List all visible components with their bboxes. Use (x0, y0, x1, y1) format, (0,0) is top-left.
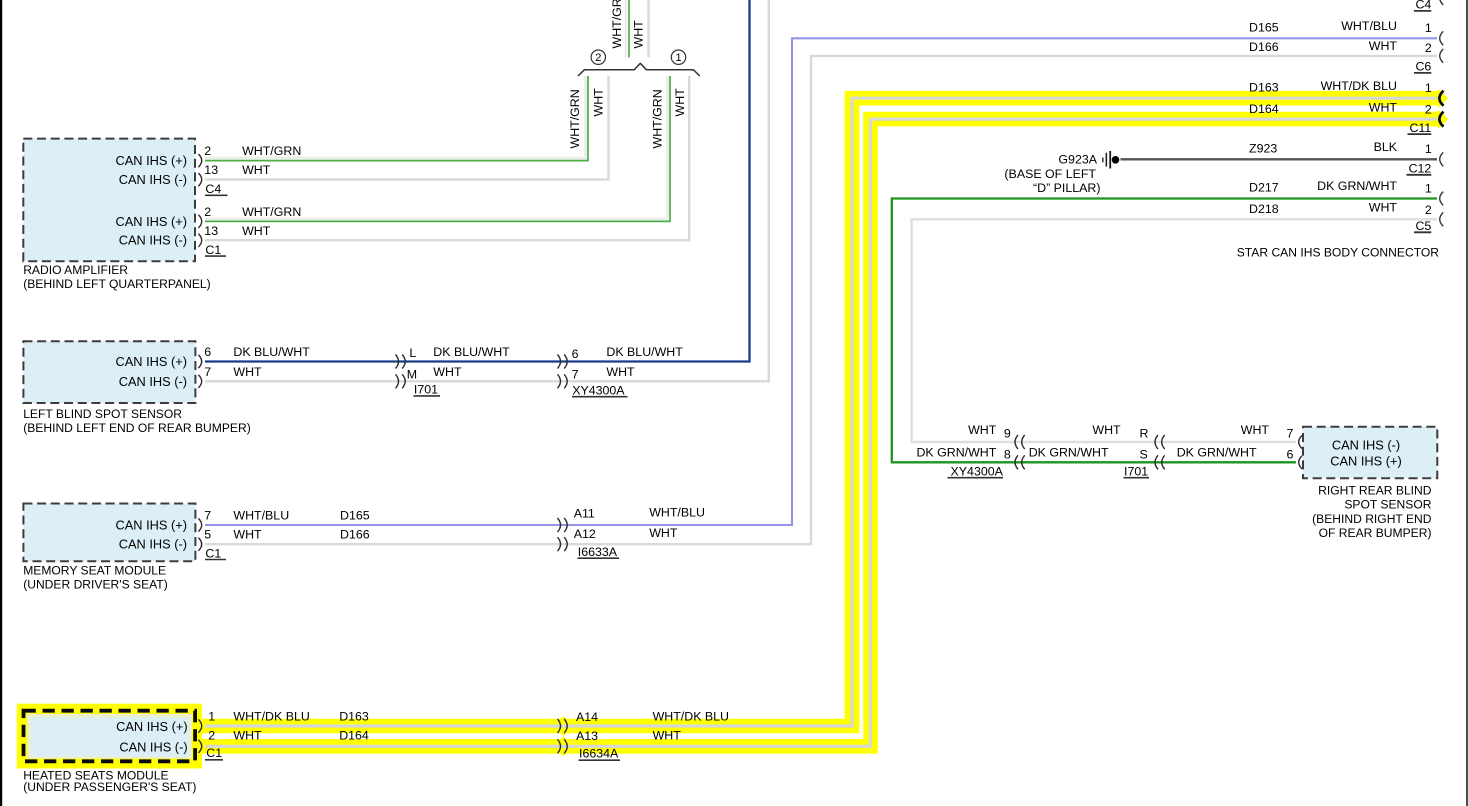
wire BLK Z923 (1121, 158, 1438, 160)
row D163 (1249, 79, 1432, 95)
highlight diamonds at connector I6634A (554, 716, 574, 736)
svg-text:DK GRN/WHT: DK GRN/WHT (1177, 446, 1257, 460)
pin arc right sensor 7 (1299, 435, 1302, 448)
svg-text:C1: C1 (206, 746, 222, 760)
wire WHT D218 (912, 219, 1437, 442)
svg-text:WHT/BLU: WHT/BLU (1341, 19, 1397, 33)
svg-text:C4: C4 (205, 182, 221, 196)
LBSS wire labels row1 (204, 345, 683, 361)
svg-text:WHT: WHT (632, 20, 646, 49)
row D165 (1249, 19, 1432, 35)
svg-text:WHT: WHT (606, 365, 635, 379)
svg-text:WHT/GRN: WHT/GRN (568, 89, 582, 148)
connector arc C6 pin1 (1440, 31, 1444, 45)
svg-text:RIGHT REAR BLIND: RIGHT REAR BLIND (1318, 484, 1432, 498)
svg-text:2: 2 (208, 729, 215, 743)
svg-text:7: 7 (204, 509, 211, 523)
svg-text:8: 8 (1004, 448, 1011, 462)
frame left edge (0, 0, 2, 806)
module box: HEATED SEATS MODULE (highlighted) (27, 714, 192, 759)
svg-text:CAN IHS (-): CAN IHS (-) (119, 537, 187, 552)
heated wire labels (205, 710, 729, 761)
svg-text:A14: A14 (576, 710, 598, 724)
pin arc heated 2 (198, 740, 201, 753)
svg-text:WHT/DK BLU: WHT/DK BLU (233, 710, 309, 724)
svg-text:CAN IHS (+): CAN IHS (+) (1330, 454, 1401, 469)
svg-text:OF REAR BUMPER): OF REAR BUMPER) (1319, 526, 1432, 540)
connector arcs I701 S (1155, 455, 1158, 469)
module box: RADIO AMPLIFIER (23, 139, 195, 262)
svg-text:I701: I701 (1124, 464, 1148, 478)
svg-text:CAN IHS (+): CAN IHS (+) (116, 214, 187, 229)
svg-text:M: M (407, 368, 417, 382)
connector arc C6 pin2 (1440, 49, 1444, 63)
svg-text:RADIO AMPLIFIER: RADIO AMPLIFIER (23, 263, 128, 277)
connector arc C4 pin2 (1440, 0, 1444, 5)
svg-text:13: 13 (204, 224, 218, 238)
module box: LEFT BLIND SPOT SENSOR (23, 341, 195, 403)
svg-text:WHT/DK BLU: WHT/DK BLU (653, 710, 729, 724)
svg-text:A11: A11 (574, 506, 595, 520)
svg-text:C4: C4 (1415, 0, 1431, 12)
svg-text:7: 7 (1287, 426, 1294, 440)
svg-text:LEFT BLIND SPOT SENSOR: LEFT BLIND SPOT SENSOR (23, 407, 182, 421)
svg-text:A13: A13 (576, 729, 598, 743)
svg-text:D164: D164 (1249, 102, 1279, 116)
svg-text:(UNDER DRIVER'S SEAT): (UNDER DRIVER'S SEAT) (23, 577, 168, 591)
svg-text:WHT: WHT (653, 728, 682, 742)
module RIGHT REAR BLIND SPOT SENSOR labels (1312, 437, 1432, 540)
ground G923A (1102, 151, 1119, 169)
svg-text:I701: I701 (414, 383, 438, 397)
module box: MEMORY SEAT MODULE (23, 504, 195, 562)
svg-text:WHT: WHT (233, 729, 262, 743)
pin arc heated 1 (198, 719, 201, 732)
svg-text:1: 1 (1425, 142, 1432, 156)
svg-text:D166: D166 (1249, 40, 1279, 54)
svg-text:XY4300A: XY4300A (951, 464, 1004, 478)
pin arc radio C1-13 (198, 234, 201, 247)
wire WHT memory seat D166 (205, 56, 1437, 544)
pin arc memory 5 (198, 538, 201, 551)
svg-text:WHT: WHT (1369, 39, 1398, 53)
wire WHT above brace (647, 0, 649, 58)
svg-text:I6633A: I6633A (578, 545, 618, 559)
svg-text:WHT: WHT (1369, 101, 1398, 115)
svg-text:2: 2 (595, 52, 601, 64)
svg-text:2: 2 (1425, 41, 1432, 55)
svg-text:L: L (409, 346, 416, 360)
wire WHT/GRN radio C1 pin2 (white companion) (205, 76, 668, 219)
svg-text:BLK: BLK (1374, 140, 1398, 154)
pin arc radio C4-13 (198, 173, 201, 186)
wire WHT/GRN radio C4 pin2 (205, 76, 588, 161)
svg-text:WHT/GRN: WHT/GRN (610, 0, 624, 49)
module LEFT BLIND SPOT SENSOR labels (23, 354, 251, 435)
pin arc right sensor 6 (1299, 456, 1302, 469)
bottom run row WHT (968, 423, 1293, 440)
svg-text:G923A: G923A (1058, 153, 1097, 167)
svg-text:DK GRN/WHT: DK GRN/WHT (916, 446, 996, 460)
module MEMORY SEAT MODULE labels (23, 518, 187, 592)
svg-text:7: 7 (572, 368, 579, 382)
wire WHT/GRN above brace (white companion) (625, 0, 628, 58)
svg-text:D163: D163 (339, 710, 369, 724)
svg-text:DK GRN/WHT: DK GRN/WHT (1029, 446, 1109, 460)
svg-text:9: 9 (1004, 426, 1011, 440)
svg-text:WHT/BLU: WHT/BLU (649, 505, 705, 519)
bottom run row DK GRN/WHT (916, 446, 1293, 462)
svg-text:CAN IHS (+): CAN IHS (+) (116, 153, 187, 168)
svg-text:XY4300A: XY4300A (572, 383, 625, 397)
svg-text:WHT: WHT (592, 88, 606, 117)
LBSS wire labels row2 (204, 365, 635, 382)
svg-text:Z923: Z923 (1249, 141, 1277, 155)
svg-text:C1: C1 (205, 243, 221, 257)
svg-text:6: 6 (1287, 447, 1294, 461)
svg-text:D166: D166 (340, 528, 370, 542)
svg-text:2: 2 (204, 205, 211, 219)
svg-text:R: R (1140, 426, 1149, 440)
svg-text:WHT/GRN: WHT/GRN (242, 205, 301, 219)
svg-text:WHT: WHT (242, 224, 271, 238)
pin arc memory 7 (198, 518, 201, 531)
svg-text:CAN IHS (-): CAN IHS (-) (1332, 437, 1400, 452)
svg-text:1: 1 (208, 710, 215, 724)
svg-text:1: 1 (1425, 81, 1432, 95)
svg-text:WHT: WHT (233, 528, 262, 542)
wire WHT/DK BLU heated seats D163 (205, 98, 1437, 726)
wire WHT heated seats D164 (205, 119, 1437, 746)
svg-text:DK GRN/WHT: DK GRN/WHT (1317, 179, 1397, 193)
connector arcs I6634A A14 (558, 719, 561, 733)
connector arcs I6633A A12 (558, 537, 561, 551)
svg-text:WHT: WHT (233, 365, 262, 379)
connector arcs XY4300A 6 (558, 355, 561, 369)
highlight: heated seats module band (17, 704, 202, 769)
svg-text:C12: C12 (1409, 162, 1432, 176)
svg-text:(UNDER PASSENGER'S SEAT): (UNDER PASSENGER'S SEAT) (23, 780, 196, 794)
svg-text:DK BLU/WHT: DK BLU/WHT (233, 345, 310, 359)
wire WHT radio C1 pin13 (205, 76, 689, 240)
svg-text:A12: A12 (574, 527, 596, 541)
circled 2 (591, 50, 605, 64)
svg-text:6: 6 (572, 347, 579, 361)
connector arcs I701 R (1155, 435, 1158, 449)
svg-text:D218: D218 (1249, 202, 1279, 216)
svg-text:“D” PILLAR): “D” PILLAR) (1033, 181, 1100, 195)
highlight: wire D163 path (183, 98, 1437, 726)
svg-text:WHT/GRN: WHT/GRN (651, 89, 665, 148)
svg-text:WHT: WHT (1241, 423, 1270, 437)
connector arc C12 pin1 (1440, 152, 1444, 166)
connector arcs I701 M (396, 374, 399, 388)
svg-text:WHT: WHT (242, 163, 271, 177)
row Z923 (1249, 140, 1432, 156)
svg-text:7: 7 (204, 365, 211, 379)
svg-text:D165: D165 (1249, 20, 1279, 34)
svg-text:(BASE OF LEFT: (BASE OF LEFT (1004, 167, 1096, 181)
svg-text:S: S (1140, 447, 1148, 461)
svg-text:C6: C6 (1415, 60, 1431, 74)
wire WHT/GRN radio C4 pin2 (white companion) (205, 76, 586, 158)
svg-text:5: 5 (204, 528, 211, 542)
connector arcs XY4300A 8 (1015, 455, 1018, 469)
ground G923A labels (1004, 153, 1100, 195)
svg-text:D165: D165 (340, 509, 370, 523)
svg-text:WHT: WHT (968, 423, 997, 437)
svg-text:2: 2 (204, 144, 211, 158)
svg-text:1: 1 (1425, 21, 1432, 35)
row D166 (1249, 39, 1432, 55)
pin arc radio C4-2 (198, 154, 201, 167)
svg-text:1: 1 (675, 52, 681, 64)
row D164 (1249, 101, 1432, 117)
row D218 (1249, 201, 1432, 217)
svg-text:WHT/GRN: WHT/GRN (242, 144, 301, 158)
connector arcs I701 L (396, 355, 399, 369)
svg-text:WHT: WHT (1369, 201, 1398, 215)
row D217 (1249, 179, 1432, 195)
circled 1 (671, 50, 685, 64)
svg-text:WHT/DK BLU: WHT/DK BLU (1321, 79, 1397, 93)
svg-text:CAN IHS (+): CAN IHS (+) (116, 354, 187, 369)
connector arcs XY4300A 9 (1015, 435, 1018, 449)
module RADIO AMPLIFIER labels (23, 153, 211, 291)
svg-text:CAN IHS (-): CAN IHS (-) (119, 172, 187, 187)
wire DK GRN/WHT D217 (892, 199, 1437, 463)
svg-text:1: 1 (1425, 182, 1432, 196)
memory wire labels (204, 505, 705, 560)
connector arcs XY4300A 7 (558, 374, 561, 388)
svg-text:CAN IHS (-): CAN IHS (-) (119, 233, 187, 248)
svg-text:2: 2 (1425, 103, 1432, 117)
radio wire labels (204, 144, 301, 257)
svg-text:(BEHIND RIGHT END: (BEHIND RIGHT END (1312, 512, 1432, 526)
svg-text:SPOT SENSOR: SPOT SENSOR (1344, 498, 1431, 512)
connector arcs I6634A A13 (558, 739, 561, 753)
svg-text:DK BLU/WHT: DK BLU/WHT (606, 345, 683, 359)
svg-text:D217: D217 (1249, 181, 1279, 195)
svg-text:6: 6 (204, 345, 211, 359)
pin arc LBSS 6 (198, 355, 201, 368)
svg-text:2: 2 (1425, 203, 1432, 217)
pin arc radio C1-2 (198, 215, 201, 228)
svg-text:DK BLU/WHT: DK BLU/WHT (433, 345, 510, 359)
svg-text:WHT: WHT (1092, 423, 1121, 437)
wire WHT left blind spot sensor (205, 0, 769, 381)
highlight diamonds at connector C11 (1430, 89, 1448, 107)
svg-text:CAN IHS (-): CAN IHS (-) (119, 374, 187, 389)
svg-text:WHT: WHT (673, 88, 687, 117)
wire WHT radio C4 pin13 (205, 76, 609, 180)
connector arc C11 pin1 (1439, 91, 1443, 106)
svg-text:CAN IHS (+): CAN IHS (+) (116, 518, 187, 533)
connector arc C5 pin1 (1440, 192, 1444, 206)
svg-text:CAN IHS (-): CAN IHS (-) (119, 739, 187, 754)
module box: RIGHT REAR BLIND SPOT SENSOR (1303, 427, 1437, 478)
svg-text:WHT: WHT (649, 526, 678, 540)
wire WHT/GRN radio C1 pin2 (205, 76, 670, 221)
brace (wire merge annotation) (578, 63, 700, 76)
pin arc LBSS 7 (198, 375, 201, 388)
frame right edge (1466, 0, 1468, 806)
svg-text:(BEHIND LEFT END OF REAR BUMPE: (BEHIND LEFT END OF REAR BUMPER) (23, 421, 251, 435)
highlight diamonds at heated module pins (193, 718, 210, 735)
connector arcs I6633A A11 (558, 518, 561, 532)
svg-text:C1: C1 (205, 546, 221, 560)
svg-text:WHT/BLU: WHT/BLU (233, 509, 289, 523)
highlight: wire D164 path (183, 119, 1437, 746)
svg-text:C5: C5 (1415, 219, 1431, 233)
svg-text:CAN IHS (+): CAN IHS (+) (116, 719, 187, 734)
wire WHT/BLU memory seat D165 (205, 38, 1437, 525)
connector arc C5 pin2 (1440, 212, 1444, 226)
svg-text:(BEHIND LEFT QUARTERPANEL): (BEHIND LEFT QUARTERPANEL) (23, 277, 211, 291)
connector arc C11 pin2 (1439, 112, 1443, 127)
svg-text:WHT: WHT (433, 365, 462, 379)
svg-text:I6634A: I6634A (579, 747, 619, 761)
wire DK BLU/WHT left blind spot sensor (205, 0, 750, 362)
svg-text:13: 13 (204, 163, 218, 177)
svg-text:D164: D164 (339, 729, 369, 743)
svg-text:MEMORY SEAT MODULE: MEMORY SEAT MODULE (23, 563, 166, 577)
module HEATED SEATS MODULE labels (23, 719, 196, 794)
wire WHT/GRN above brace (628, 0, 630, 58)
svg-text:C11: C11 (1409, 121, 1431, 135)
svg-text:STAR CAN IHS BODY CONNECTOR: STAR CAN IHS BODY CONNECTOR (1237, 246, 1440, 260)
svg-text:D163: D163 (1249, 80, 1279, 94)
